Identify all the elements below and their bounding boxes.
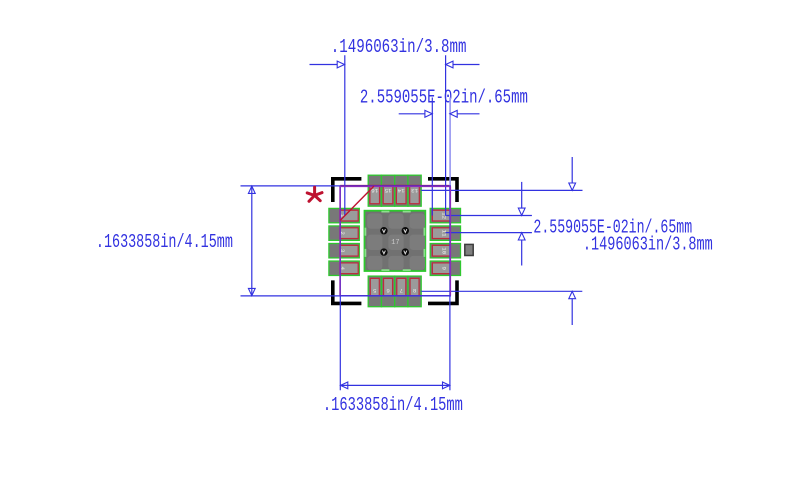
pad 8 bbox=[408, 276, 421, 307]
right 3.8 dim upper arrow bbox=[571, 157, 573, 183]
svg-text:.1633858in/4.15mm: .1633858in/4.15mm bbox=[323, 394, 463, 416]
extension line left of top 3.8 dim bbox=[344, 55, 346, 215]
svg-text:11: 11 bbox=[440, 230, 447, 237]
right .65 dim upper arrow bbox=[521, 182, 523, 208]
pad 13 bbox=[408, 175, 421, 206]
extension line right of top .65 dim bbox=[449, 98, 451, 216]
right 3.8 dim lower arrow bbox=[571, 299, 573, 326]
pad 12 bbox=[430, 208, 460, 222]
arrow shaft top .65 dim left bbox=[399, 113, 425, 115]
pad 1 bbox=[329, 208, 359, 222]
red assembly outline bbox=[340, 185, 450, 295]
right .65 dim extension bottom line bbox=[446, 232, 532, 234]
pad 3 bbox=[329, 244, 359, 258]
svg-text:10: 10 bbox=[440, 247, 447, 254]
pin 1 asterisk bbox=[307, 187, 322, 201]
extension line left of top .65 dim bbox=[431, 98, 433, 216]
courtyard bottom edge bbox=[340, 295, 451, 297]
extension line left of bottom 4.15 dim bbox=[339, 186, 341, 390]
svg-text:.1496063in/3.8mm: .1496063in/3.8mm bbox=[331, 36, 467, 58]
pad 4 bbox=[329, 261, 359, 275]
pad 14 bbox=[395, 175, 408, 206]
pad 5 bbox=[368, 276, 381, 307]
bottom 4.15 dim shaft bbox=[341, 384, 450, 386]
courtyard outline bbox=[340, 186, 451, 295]
pad 16 bbox=[368, 175, 381, 206]
side marker rectangle bbox=[465, 244, 473, 255]
thermal pad mask ticks bbox=[365, 212, 424, 271]
right 3.8 dim extension top line bbox=[421, 189, 582, 191]
pad 15 bbox=[381, 175, 394, 206]
black corner bracket bottom-left bbox=[331, 280, 361, 305]
arrow shaft top 3.8 dim left bbox=[310, 64, 338, 66]
via V3 bbox=[380, 248, 387, 255]
svg-text:5: 5 bbox=[373, 287, 377, 294]
svg-text:6: 6 bbox=[386, 287, 390, 294]
pad 10 bbox=[430, 244, 460, 258]
arrow shaft top .65 dim right bbox=[457, 113, 479, 115]
svg-text:15: 15 bbox=[384, 187, 391, 194]
via V1 bbox=[380, 227, 387, 234]
svg-text:14: 14 bbox=[397, 187, 404, 194]
pad 7 bbox=[395, 276, 408, 307]
pad 6 bbox=[381, 276, 394, 307]
left 4.15 dim extension top line bbox=[241, 185, 451, 187]
pad 9 bbox=[430, 261, 460, 275]
thermal pad 17 bbox=[365, 211, 426, 271]
svg-text:.1633858in/4.15mm: .1633858in/4.15mm bbox=[96, 231, 233, 253]
right .65 dim lower arrow bbox=[521, 240, 523, 266]
via V4 bbox=[402, 248, 409, 255]
black corner bracket top-left bbox=[331, 177, 361, 202]
pin 1 marker line bbox=[340, 186, 374, 220]
via V2 bbox=[402, 227, 409, 234]
pad 11 bbox=[430, 226, 460, 240]
arrow shaft top 3.8 dim right bbox=[453, 64, 480, 66]
extension line right of bottom 4.15 dim bbox=[449, 186, 451, 390]
left 4.15 dim extension bottom line bbox=[241, 295, 452, 297]
svg-text:2.559055E-02in/.65mm: 2.559055E-02in/.65mm bbox=[360, 87, 528, 109]
black corner bracket top-right bbox=[428, 177, 459, 202]
svg-text:7: 7 bbox=[399, 287, 403, 294]
svg-text:.1496063in/3.8mm: .1496063in/3.8mm bbox=[583, 233, 713, 255]
left 4.15 dim shaft bbox=[251, 186, 253, 296]
svg-text:9: 9 bbox=[440, 266, 447, 270]
pad 2 bbox=[329, 226, 359, 240]
svg-text:13: 13 bbox=[411, 187, 418, 194]
right .65 dim extension top line bbox=[446, 215, 532, 217]
right 3.8 dim extension bottom line bbox=[421, 290, 582, 292]
svg-text:17: 17 bbox=[391, 239, 399, 247]
svg-text:8: 8 bbox=[412, 287, 416, 294]
extension line right of top 3.8 dim bbox=[445, 55, 447, 215]
black corner bracket bottom-right bbox=[428, 280, 459, 305]
